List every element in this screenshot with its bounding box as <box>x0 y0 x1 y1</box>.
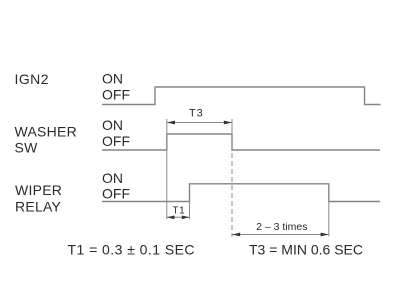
svg-text:OFF: OFF <box>102 87 130 103</box>
svg-text:OFF: OFF <box>102 186 130 202</box>
svg-text:T1: T1 <box>173 206 186 217</box>
node T1 dimension line <box>167 216 189 218</box>
svg-text:T1 = 0.3 ± 0.1 SEC: T1 = 0.3 ± 0.1 SEC <box>68 241 195 257</box>
node 2-3 times dimension extension lines <box>231 153 233 237</box>
wire IGN2 waveform <box>102 87 381 105</box>
svg-text:T3 = MIN 0.6 SEC: T3 = MIN 0.6 SEC <box>249 241 363 257</box>
svg-text:IGN2: IGN2 <box>15 71 49 87</box>
svg-text:ON: ON <box>102 170 123 186</box>
svg-text:T3: T3 <box>189 108 204 120</box>
wire WIPER RELAY waveform <box>102 184 380 202</box>
svg-text:2 – 3 times: 2 – 3 times <box>256 221 307 233</box>
svg-text:OFF: OFF <box>102 133 130 149</box>
svg-text:WIPER: WIPER <box>15 182 62 198</box>
svg-text:SW: SW <box>15 139 39 155</box>
node 2-3 times dimension line <box>233 234 329 236</box>
svg-text:ON: ON <box>102 71 123 87</box>
node T1 dimension extension lines <box>166 151 168 219</box>
wire WASHER SW waveform <box>102 134 380 150</box>
svg-text:RELAY: RELAY <box>15 198 62 214</box>
node T3 dimension line <box>167 122 231 124</box>
svg-text:WASHER: WASHER <box>15 123 77 139</box>
node T3 dimension extension lines <box>166 119 168 133</box>
svg-text:ON: ON <box>102 117 123 133</box>
